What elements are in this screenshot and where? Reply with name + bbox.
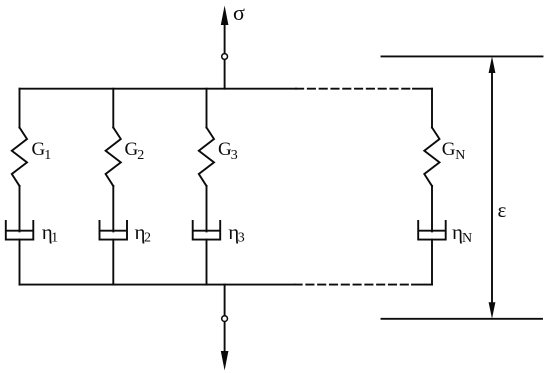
svg-text:η2: η2 bbox=[135, 220, 151, 246]
spring G2 bbox=[106, 128, 121, 187]
wire top bus solid left segment bbox=[20, 88, 297, 90]
wire branch1 bottom bbox=[19, 240, 21, 285]
spring G3 bbox=[199, 128, 214, 187]
svg-text:ε: ε bbox=[498, 198, 507, 222]
dimension arrow epsilon vertical bbox=[491, 70, 493, 305]
svg-text:ηN: ηN bbox=[452, 220, 472, 246]
wire branch3 top bbox=[206, 89, 208, 128]
wire branch1 top bbox=[19, 89, 21, 128]
wire top bus solid right segment bbox=[413, 88, 432, 90]
arrowhead sigma bottom bbox=[221, 351, 229, 371]
dashpot eta2 bbox=[100, 221, 128, 240]
node circle top bbox=[222, 54, 228, 60]
wire sigma rod top bbox=[224, 25, 226, 89]
dimension line epsilon top bbox=[382, 55, 543, 57]
node circle bottom bbox=[222, 316, 228, 322]
wire sigma rod bottom bbox=[224, 285, 226, 352]
svg-text:G1: G1 bbox=[32, 139, 52, 163]
wire branchN top bbox=[431, 89, 433, 128]
dashpot eta3 bbox=[193, 221, 221, 240]
svg-text:η3: η3 bbox=[228, 220, 244, 246]
dashpot eta1 bbox=[6, 221, 34, 240]
spring GN bbox=[424, 128, 439, 187]
wire branch2 top bbox=[112, 89, 114, 128]
wire bottom bus solid left segment bbox=[20, 284, 295, 286]
svg-text:η1: η1 bbox=[42, 220, 58, 246]
wire branch2 mid bbox=[112, 186, 114, 231]
dashpot etaN bbox=[418, 221, 446, 240]
spring G1 bbox=[12, 128, 27, 187]
wire branch1 mid bbox=[19, 186, 21, 231]
wire branchN bottom bbox=[431, 240, 433, 285]
svg-text:GN: GN bbox=[442, 139, 466, 163]
svg-text:G2: G2 bbox=[125, 139, 145, 163]
svg-text:σ: σ bbox=[233, 0, 245, 25]
wire bottom bus solid right segment bbox=[412, 284, 432, 286]
wire bottom bus dashed segment bbox=[295, 284, 413, 286]
wire top bus dashed segment bbox=[296, 88, 413, 90]
svg-text:G3: G3 bbox=[218, 139, 238, 163]
arrowhead epsilon up bbox=[489, 56, 496, 73]
wire branchN mid bbox=[431, 186, 433, 231]
wire branch3 mid bbox=[206, 186, 208, 231]
wire branch2 bottom bbox=[112, 240, 114, 285]
arrowhead sigma top bbox=[221, 6, 229, 26]
wire branch3 bottom bbox=[206, 240, 208, 285]
arrowhead epsilon down bbox=[489, 302, 496, 319]
dimension line epsilon bottom bbox=[382, 318, 543, 320]
